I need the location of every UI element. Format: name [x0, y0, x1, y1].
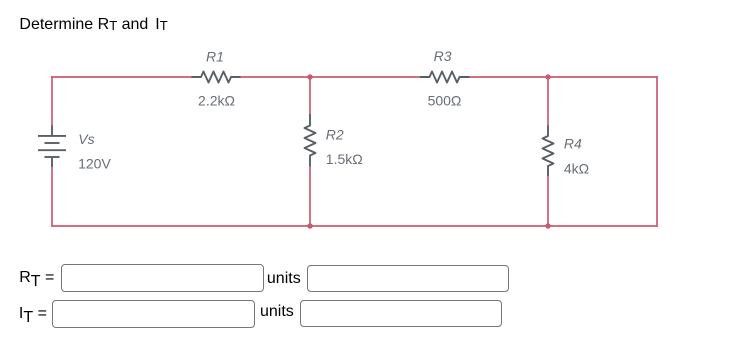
svg-text:120V: 120V: [78, 155, 111, 171]
wire top segment from R3 to top-right corner: [470, 76, 658, 78]
svg-text:Vs: Vs: [78, 131, 94, 147]
wire bottom segment: [51, 225, 658, 227]
resistor R1 body (horizontal zigzag): [192, 72, 241, 83]
svg-text:1.5kΩ: 1.5kΩ: [326, 151, 363, 167]
answer row RT: units label: [267, 271, 301, 287]
answer row RT: value input box: [61, 264, 265, 292]
svg-text:4kΩ: 4kΩ: [564, 161, 589, 177]
svg-text:R2: R2: [326, 127, 344, 143]
wire top segment from battery positive to R1 left lead: [51, 76, 191, 78]
svg-text:R4: R4: [564, 136, 582, 152]
answer row IT: units label: [260, 304, 294, 320]
node C junction dot (R2 bottom): [307, 223, 312, 228]
wire left vertical lower segment (battery to bottom corner): [51, 167, 53, 227]
wire R2 top stub: [309, 77, 311, 114]
wire right vertical segment: [656, 76, 658, 227]
svg-text:500Ω: 500Ω: [428, 93, 462, 109]
node A junction dot (R1/R2/R3 top): [307, 74, 312, 79]
svg-text:R1: R1: [206, 48, 224, 64]
node D junction dot (R4 bottom): [545, 223, 550, 228]
answer row IT: units input box: [300, 300, 502, 327]
node B junction dot (R3/R4 top): [545, 74, 550, 79]
battery Vs (voltage source symbol): [38, 125, 66, 167]
resistor R2 body (vertical zigzag): [305, 114, 316, 167]
resistor R3 body (horizontal zigzag): [420, 72, 470, 83]
answer row IT: label: [19, 306, 47, 322]
wire left vertical upper segment (corner to battery): [51, 76, 53, 125]
wire R4 top stub: [547, 77, 549, 126]
title: Determine RT and IT: [19, 17, 167, 33]
wire top segment from R1 to node A (R3 left side): [241, 76, 420, 78]
wire R4 bottom stub: [547, 176, 549, 226]
svg-text:R3: R3: [434, 48, 452, 64]
answer row RT: units input box: [307, 265, 510, 292]
answer row RT: label: [19, 270, 54, 286]
wire R2 bottom stub: [309, 167, 311, 227]
resistor R4 body (vertical zigzag): [543, 126, 554, 177]
answer row IT: value input box: [52, 300, 255, 328]
svg-text:2.2kΩ: 2.2kΩ: [198, 93, 235, 109]
